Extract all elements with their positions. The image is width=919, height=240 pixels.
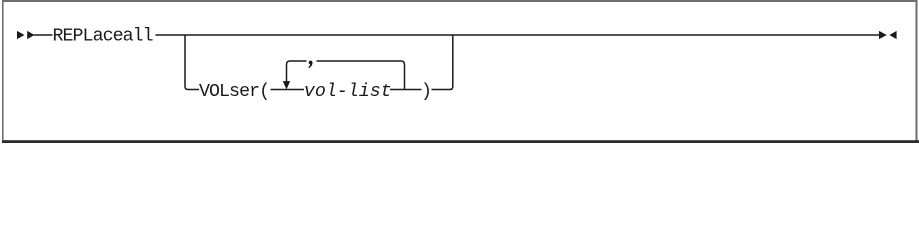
wire: main rail segment from start arrows to keyword [34, 34, 53, 36]
repeat-loop separator comma [308, 61, 312, 69]
wire: branch segment between ( and vol-list [271, 89, 305, 91]
repeat-loop down arrowhead [283, 81, 290, 89]
wire: repeat-loop right riser [401, 61, 405, 90]
svg-text:REPLaceall: REPLaceall [53, 27, 153, 47]
start arrow 1 [17, 31, 25, 39]
end arrow (left-pointing) [889, 31, 896, 39]
wire: branch drop-down at left [185, 35, 199, 90]
wire: repeat-loop top line after comma [317, 60, 402, 62]
end arrow (right-pointing) [879, 31, 887, 39]
svg-text:): ) [421, 82, 432, 102]
wire: branch segment after ) [432, 89, 452, 91]
wire: repeat-loop left riser with top corner [287, 61, 307, 83]
wire: branch riser rejoining main rail at right [450, 35, 453, 90]
wire: main rail segment from keyword to end arrows [156, 34, 880, 36]
frame border (decorative) [2, 0, 917, 2]
wire: branch segment after vol-list up to ) [390, 89, 422, 91]
start arrow 2 [27, 31, 35, 39]
svg-text:vol-list: vol-list [304, 82, 392, 102]
svg-text:VOLser(: VOLser( [199, 82, 269, 102]
